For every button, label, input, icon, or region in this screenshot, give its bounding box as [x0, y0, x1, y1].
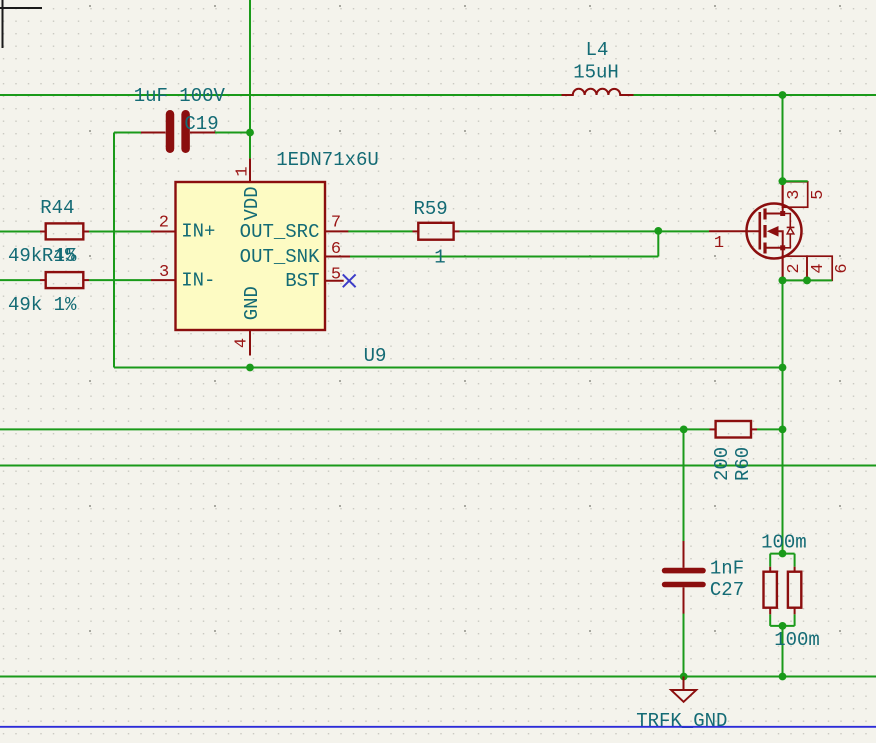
svg-text:VDD: VDD — [241, 186, 263, 220]
svg-text:OUT_SRC: OUT_SRC — [240, 221, 320, 243]
capacitor C19 — [134, 85, 226, 149]
wire GND rail of U9 — [114, 367, 783, 369]
pin 6 OUT_SNK — [325, 256, 350, 258]
svg-text:1: 1 — [233, 166, 252, 176]
node R60 right — [779, 426, 787, 434]
node GND junction — [246, 364, 254, 372]
wire 100m left bottom stub — [769, 614, 771, 626]
wire into R45 — [0, 279, 40, 281]
wire top rail right of L4 — [634, 94, 876, 96]
junction squares — [780, 211, 785, 216]
node C19/VDD junction — [246, 129, 254, 137]
pin 5 BST — [325, 280, 344, 282]
svg-text:100m: 100m — [761, 531, 807, 553]
node 100m top — [779, 550, 787, 558]
svg-text:2: 2 — [159, 214, 169, 233]
node source pin 4 dot — [803, 277, 811, 285]
pin 3 IN- — [151, 279, 176, 281]
wire R45 to IN- — [89, 279, 151, 281]
wire 100m right bottom stub — [794, 614, 796, 626]
wire OUT_SNK horizontal — [350, 256, 658, 258]
node gate tie — [654, 227, 662, 235]
svg-text:R59: R59 — [413, 198, 447, 220]
svg-text:1nF: 1nF — [710, 558, 744, 580]
wire R60 row left — [0, 428, 710, 430]
svg-text:6: 6 — [833, 263, 852, 273]
node source / bottom rail — [779, 673, 787, 681]
node source pin 2 dot — [779, 277, 787, 285]
bus line — [0, 726, 876, 728]
svg-text:OUT_SNK: OUT_SNK — [240, 246, 320, 268]
resistor 100m (right of pair) — [761, 531, 820, 650]
svg-text:5: 5 — [809, 189, 828, 199]
svg-text:7: 7 — [331, 214, 341, 233]
wire left vertical from C19 down — [113, 133, 115, 368]
svg-text:IN-: IN- — [181, 270, 215, 292]
svg-text:3: 3 — [785, 189, 804, 199]
body diode — [783, 214, 791, 248]
body tie — [779, 231, 783, 248]
wire drain vertical from top rail — [782, 95, 784, 181]
svg-text:R60: R60 — [732, 447, 754, 481]
wire R60 to vertical — [757, 428, 783, 430]
svg-text:BST: BST — [285, 270, 319, 292]
wire C19 right to junction — [215, 132, 250, 134]
wire R59 to gate — [460, 230, 710, 232]
source path — [767, 248, 783, 281]
capacitor C27 — [665, 541, 745, 614]
node drain pins dot — [779, 177, 787, 185]
wire mid rail — [0, 465, 876, 467]
svg-text:3: 3 — [159, 263, 169, 282]
channel bars — [763, 209, 766, 220]
svg-text:15uH: 15uH — [573, 61, 619, 83]
svg-text:IN+: IN+ — [181, 221, 215, 243]
svg-text:4: 4 — [232, 338, 251, 348]
node 100m bottom — [779, 622, 787, 630]
svg-text:U9: U9 — [364, 345, 387, 367]
svg-text:1EDN71x6U: 1EDN71x6U — [276, 149, 379, 171]
wire OUT_SRC to R59 — [348, 230, 413, 232]
node source / GND rail — [779, 364, 787, 372]
wire C19 left lead horizontal — [114, 132, 141, 134]
wire C27 vertical upper — [683, 429, 685, 542]
wire bottom pin tie — [783, 279, 833, 281]
svg-text:49k 1%: 49k 1% — [8, 294, 77, 316]
resistor R59 — [413, 198, 460, 240]
pin 1 VDD — [249, 158, 251, 182]
svg-text:R44: R44 — [40, 197, 74, 219]
wire OUT_SNK riser — [657, 230, 659, 256]
wire 100m top tie — [770, 553, 794, 555]
node C27 / bottom rail — [680, 673, 688, 681]
wire source vertical down — [782, 280, 784, 553]
svg-text:5: 5 — [331, 266, 341, 285]
sheet corner mark — [0, 0, 42, 48]
inductor L4 — [562, 39, 634, 95]
node source pin 2 — [779, 277, 787, 285]
MOSFET drain pin box 3/5 — [783, 182, 829, 207]
svg-text:6: 6 — [331, 240, 341, 259]
wire vertical into C19 junction — [249, 0, 251, 158]
wire C27 vertical lower — [683, 614, 685, 677]
wire bottom rail — [0, 676, 876, 678]
pin 2 IN+ — [151, 231, 176, 233]
wire into R44 — [0, 231, 40, 233]
svg-text:1: 1 — [714, 234, 724, 253]
svg-text:GND: GND — [241, 286, 263, 320]
source arrow — [767, 226, 779, 237]
node source pin 4 — [803, 277, 811, 285]
svg-text:1uF 100V: 1uF 100V — [134, 85, 226, 107]
resistor 100m (left of pair) — [764, 567, 777, 615]
op-amp U9 gate driver 1EDN71x6U — [151, 149, 386, 367]
svg-text:C19: C19 — [184, 113, 218, 135]
svg-text:1: 1 — [434, 246, 445, 268]
circle — [747, 204, 802, 259]
resistor R60 — [710, 421, 758, 481]
wire 100m left top stub — [769, 554, 771, 567]
drain path — [767, 182, 783, 214]
gate lead — [709, 230, 759, 232]
ground TRFK_GND — [636, 677, 727, 732]
pin 7 OUT_SRC — [325, 230, 348, 232]
resistor R45 — [8, 245, 89, 316]
wire top pin tie — [783, 180, 808, 182]
gate bar — [758, 212, 761, 250]
svg-text:C27: C27 — [710, 579, 744, 601]
svg-text:100m: 100m — [774, 629, 820, 651]
MOSFET source pin boxes 2/4/6 — [783, 256, 853, 280]
resistor R44 — [8, 197, 89, 267]
svg-text:L4: L4 — [586, 39, 609, 61]
pin 4 GND — [249, 330, 251, 356]
svg-text:R45: R45 — [42, 245, 76, 267]
node drain pins — [779, 177, 787, 185]
node top rail / drain — [779, 91, 787, 99]
wire top rail left of L4 — [0, 94, 562, 96]
wire R44 to IN+ — [89, 231, 151, 233]
transistor Q1 power MOSFET — [709, 182, 802, 281]
svg-text:4: 4 — [809, 263, 828, 273]
node R60 left — [680, 426, 688, 434]
wire 100m bottom tie — [770, 625, 794, 627]
wire 100m to bottom rail — [782, 626, 784, 677]
no-connect X on BST — [343, 274, 356, 287]
wire 100m right top stub — [794, 554, 796, 567]
svg-text:2: 2 — [785, 263, 804, 273]
svg-text:TRFK_GND: TRFK_GND — [636, 710, 727, 732]
svg-text:200: 200 — [711, 447, 733, 481]
